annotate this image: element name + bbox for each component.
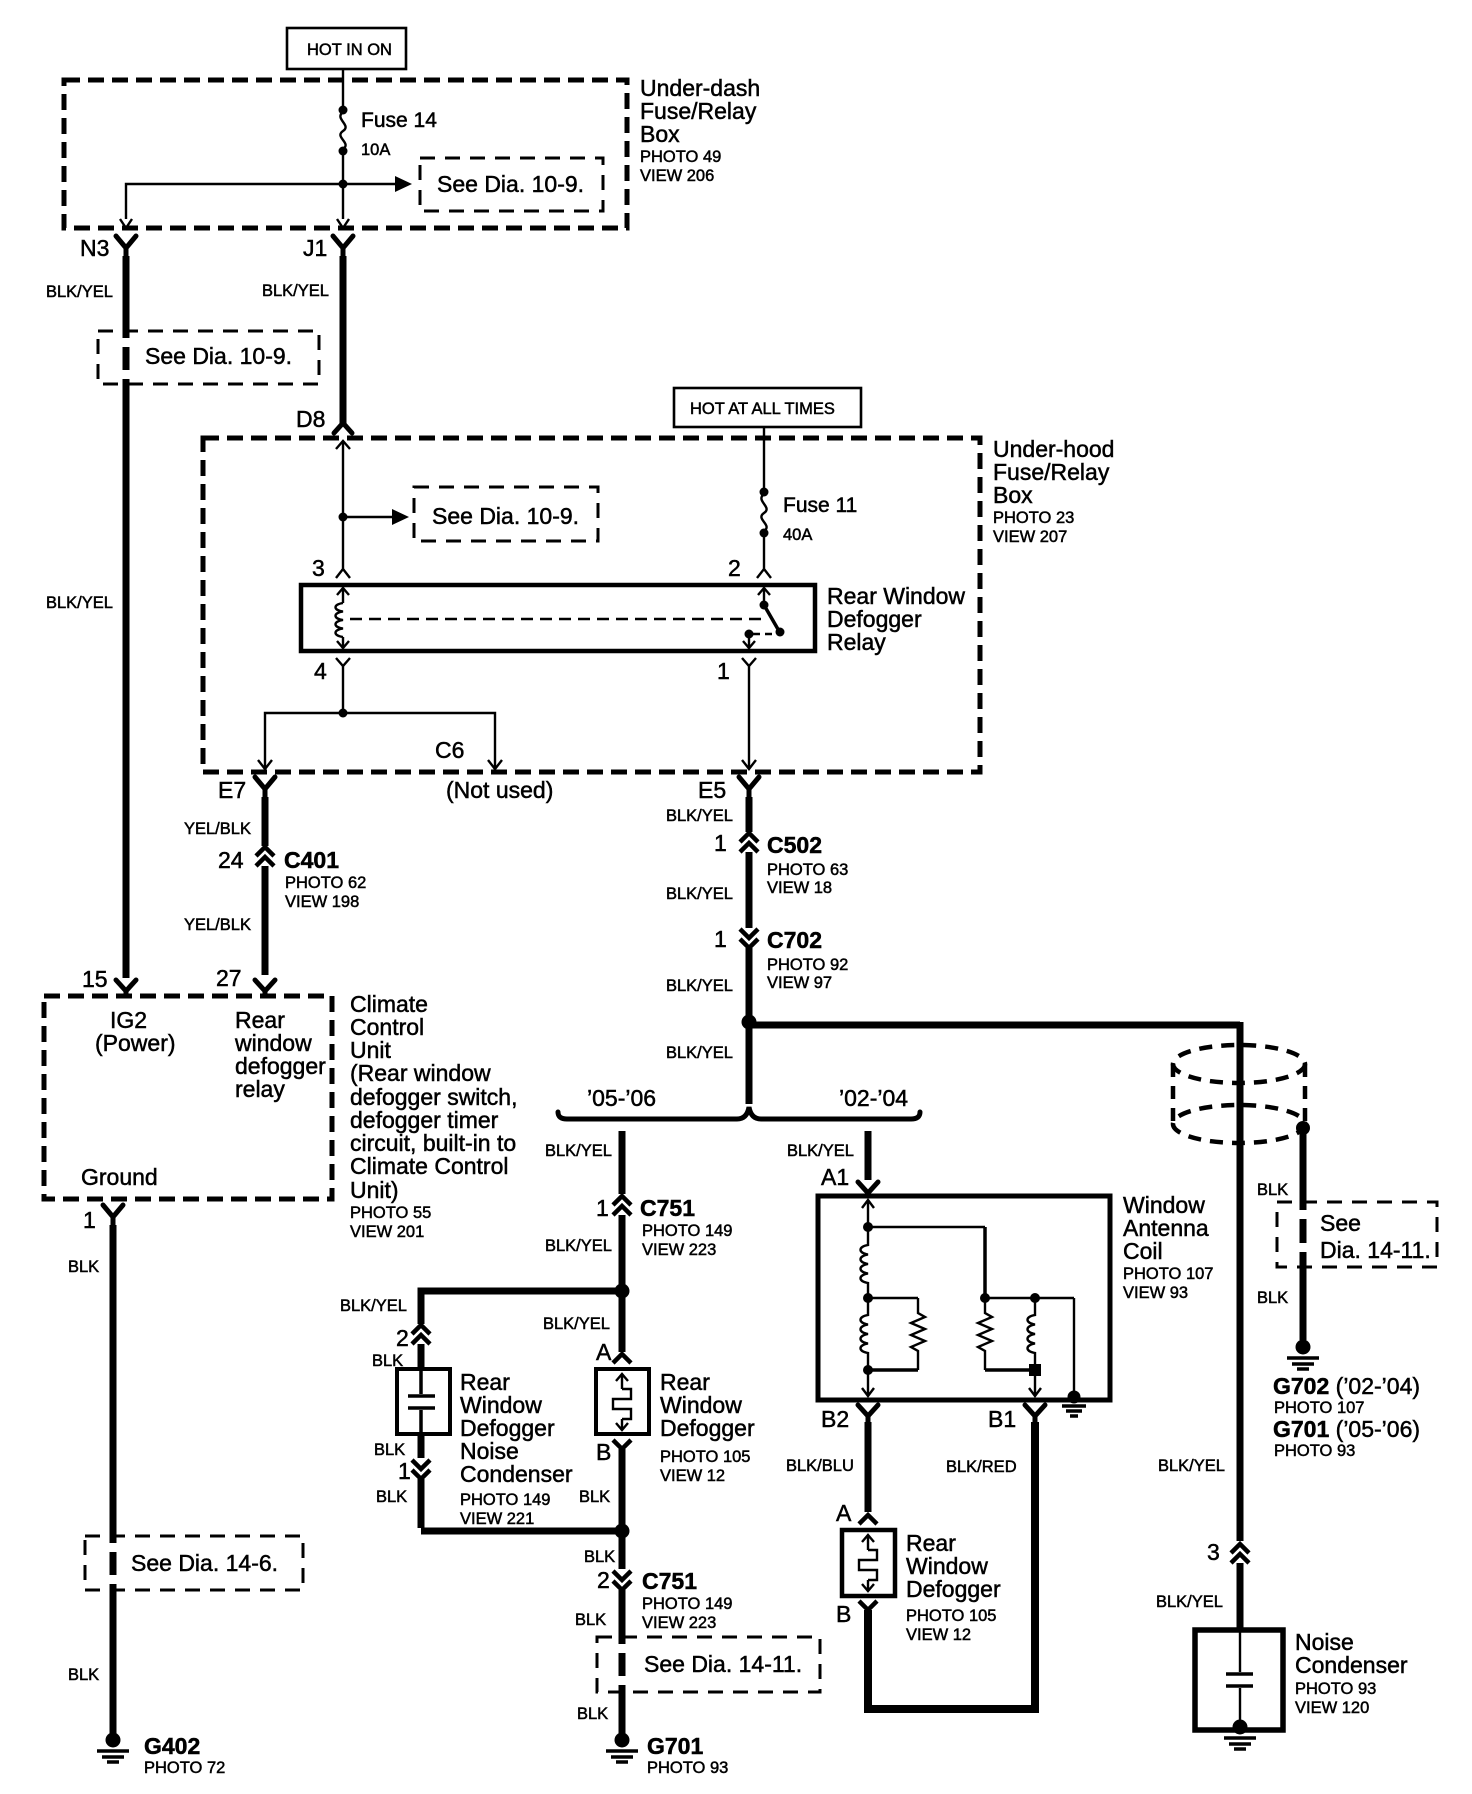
svg-text:See Dia. 10-9.: See Dia. 10-9. xyxy=(145,343,292,369)
svg-text:B2: B2 xyxy=(821,1406,849,1432)
svg-text:2: 2 xyxy=(396,1325,409,1351)
svg-text:BLK/YEL: BLK/YEL xyxy=(787,1142,854,1160)
svg-text:HOT IN ON: HOT IN ON xyxy=(307,41,392,59)
svg-text:BLK: BLK xyxy=(579,1488,610,1506)
relay switch fixed contact dot xyxy=(745,630,754,639)
svg-text:A: A xyxy=(596,1339,612,1365)
svg-text:See: See xyxy=(1320,1210,1361,1236)
svg-text:40A: 40A xyxy=(783,526,812,544)
svg-text:J1: J1 xyxy=(303,235,327,261)
relay switch dashed link xyxy=(753,633,776,635)
svg-text:VIEW 12: VIEW 12 xyxy=(660,1467,725,1485)
svg-text:2: 2 xyxy=(728,555,741,581)
connector fork J1 xyxy=(333,236,353,258)
see dia 10-9 box (left, on N3 wire) xyxy=(98,331,319,384)
svg-text:relay: relay xyxy=(235,1076,285,1102)
svg-text:B: B xyxy=(596,1439,611,1465)
SECTION-C : C401 chain, climate control unit, G402 ground xyxy=(44,777,517,1777)
wire junction to right riser xyxy=(749,1022,1240,1029)
svg-text:HOT AT ALL TIMES: HOT AT ALL TIMES xyxy=(690,400,835,418)
svg-text:1: 1 xyxy=(398,1458,411,1484)
svg-text:PHOTO 149: PHOTO 149 xyxy=(460,1491,550,1509)
svg-text:VIEW 120: VIEW 120 xyxy=(1295,1699,1369,1717)
wire split to C6 xyxy=(343,713,495,757)
wire E5 BLK/YEL xyxy=(746,797,753,832)
svg-text:VIEW 221: VIEW 221 xyxy=(460,1510,534,1528)
svg-text:E7: E7 xyxy=(218,777,246,803)
wire bottom link left pair xyxy=(868,1368,918,1372)
node HOT IN ON xyxy=(287,28,406,69)
coil L1 upper xyxy=(861,1227,869,1298)
svg-text:BLK/YEL: BLK/YEL xyxy=(340,1297,407,1315)
internal ground symbol xyxy=(1062,1406,1086,1416)
svg-text:BLK/YEL: BLK/YEL xyxy=(262,282,329,300)
resistor R2 xyxy=(978,1298,992,1370)
see dia 14-11 box (right) xyxy=(1277,1202,1437,1267)
svg-text:D8: D8 xyxy=(296,406,325,432)
condenser label xyxy=(460,1369,573,1528)
connector pin 3 chevrons xyxy=(1231,1544,1249,1563)
connector C702 xyxy=(740,927,848,992)
relay coil arrow down xyxy=(337,637,349,648)
wire C751 to see dia BLK xyxy=(619,1590,626,1639)
svg-text:Unit): Unit) xyxy=(350,1177,399,1203)
relay switch arrow up xyxy=(758,588,770,603)
wire ground BLK xyxy=(110,1225,117,1538)
wire fuse 14 to junction xyxy=(342,151,344,184)
wire 02-04 drop BLK/YEL xyxy=(865,1131,872,1180)
connector pin A chevron xyxy=(859,1515,877,1524)
connector pin 2 chevrons xyxy=(412,1325,430,1344)
SECTION-E : 05-06 branch with noise condenser and defogger xyxy=(340,1131,820,1777)
connector fork E7 xyxy=(255,777,275,799)
coil L3 right xyxy=(1028,1298,1036,1370)
internal ground dot xyxy=(1068,1391,1081,1404)
wire dashed through see dia 14-11 xyxy=(619,1639,626,1691)
SECTION-G : right column antenna feed, G702, noise condenser xyxy=(1156,1022,1437,1749)
wire defogger B return loop xyxy=(868,1610,1035,1709)
pin 3 fork xyxy=(336,565,350,578)
wire mid link to resistor R1 xyxy=(868,1297,918,1299)
relay switch common contact xyxy=(760,601,769,610)
arrow N3 into box edge xyxy=(120,219,132,228)
connector C502 xyxy=(740,832,848,897)
pin 1 fork xyxy=(742,658,756,671)
arrow C6 at box edge xyxy=(488,757,502,769)
svg-text:VIEW 12: VIEW 12 xyxy=(906,1626,971,1644)
under-hood fuse/relay box label xyxy=(993,436,1114,546)
fuse F14 xyxy=(339,106,438,160)
wire J1 BLK/YEL down to D8 xyxy=(340,256,347,424)
svg-text:BLK/YEL: BLK/YEL xyxy=(46,283,113,301)
wire BLK to G701 xyxy=(619,1691,626,1734)
arrow into see dia 10-9 xyxy=(395,176,412,192)
svg-text:BLK/YEL: BLK/YEL xyxy=(543,1315,610,1333)
SECTION-F : 02-04 branch window antenna coil and defogger xyxy=(786,1131,1213,1713)
wire pin 1 to E5 xyxy=(748,671,750,757)
SECTION-B : under-hood fuse/relay box with defogger relay xyxy=(203,388,1114,803)
connector pin B chevron xyxy=(859,1601,877,1610)
connector C751 lower xyxy=(613,1568,732,1632)
svg-text:VIEW 223: VIEW 223 xyxy=(642,1614,716,1632)
svg-text:1: 1 xyxy=(83,1207,96,1233)
wire to B1 exit arrow xyxy=(1029,1370,1041,1396)
svg-text:VIEW 198: VIEW 198 xyxy=(285,893,359,911)
svg-text:See Dia. 14-11.: See Dia. 14-11. xyxy=(644,1651,802,1677)
junction dot bottom left xyxy=(863,1365,873,1375)
see dia 14-11 box (bottom) xyxy=(597,1637,820,1692)
window antenna coil label xyxy=(1123,1192,1213,1302)
svg-text:3: 3 xyxy=(1207,1539,1220,1565)
wire B1 BLK/RED xyxy=(1031,1422,1039,1713)
connector fork A1 xyxy=(858,1182,878,1196)
see dia 10-9 box (mid) xyxy=(414,487,598,541)
svg-text:PHOTO 23: PHOTO 23 xyxy=(993,509,1074,527)
svg-text:PHOTO 63: PHOTO 63 xyxy=(767,861,848,879)
wire junction to condenser branch xyxy=(421,1291,625,1324)
wire HOT AT ALL TIMES to fuse 11 xyxy=(763,427,765,490)
wire B2 BLK/BLU xyxy=(865,1422,872,1512)
wire condenser to ground bus BLK xyxy=(421,1479,622,1531)
svg-text:C751: C751 xyxy=(642,1568,697,1594)
svg-text:Defogger: Defogger xyxy=(906,1576,1001,1602)
svg-text:PHOTO 149: PHOTO 149 xyxy=(642,1595,732,1613)
wire HOT IN ON to fuse 14 xyxy=(342,69,344,108)
svg-text:PHOTO 55: PHOTO 55 xyxy=(350,1204,431,1222)
pin 15 fork xyxy=(116,980,136,996)
wire bus to C751 pin 2 BLK xyxy=(619,1531,626,1569)
junction dot inside under-hood box xyxy=(339,513,348,522)
wire junction to N3 branch xyxy=(126,184,343,219)
under-hood fuse/relay box border xyxy=(203,438,980,772)
junction dot to antenna feed xyxy=(742,1015,757,1030)
svg-text:PHOTO 107: PHOTO 107 xyxy=(1274,1399,1364,1417)
svg-text:BLK/YEL: BLK/YEL xyxy=(666,1044,733,1062)
relay coil xyxy=(336,603,344,637)
wire condenser pin 1 BLK xyxy=(418,1434,425,1458)
svg-text:See Dia. 10-9.: See Dia. 10-9. xyxy=(432,503,579,529)
wire 05-06 drop BLK/YEL xyxy=(619,1131,626,1194)
connector fork D8 xyxy=(334,415,352,433)
svg-text:B: B xyxy=(836,1601,851,1627)
svg-text:Dia. 14-11.: Dia. 14-11. xyxy=(1320,1237,1431,1263)
svg-text:PHOTO 107: PHOTO 107 xyxy=(1123,1265,1213,1283)
defogger label xyxy=(660,1369,755,1485)
svg-text:2: 2 xyxy=(597,1567,610,1593)
year split bracket xyxy=(558,1107,920,1119)
svg-text:PHOTO 149: PHOTO 149 xyxy=(642,1222,732,1240)
svg-text:PHOTO 93: PHOTO 93 xyxy=(647,1759,728,1777)
svg-text:See Dia. 14-6.: See Dia. 14-6. xyxy=(131,1550,278,1576)
svg-text:BLK/BLU: BLK/BLU xyxy=(786,1457,854,1475)
junction dot mid left xyxy=(863,1293,873,1303)
under-dash fuse/relay box border xyxy=(64,80,627,228)
arrow D8 entering box (inside) xyxy=(336,441,350,449)
arrow into see dia 10-9 (mid) xyxy=(392,509,409,525)
svg-text:C702: C702 xyxy=(767,927,822,953)
svg-text:PHOTO 92: PHOTO 92 xyxy=(767,956,848,974)
svg-text:1: 1 xyxy=(714,830,727,856)
relay switch to pin 1 arrow xyxy=(743,634,755,648)
svg-text:BLK/YEL: BLK/YEL xyxy=(666,977,733,995)
ground at noise condenser xyxy=(1224,1720,1256,1750)
svg-text:G702 (’02-’04): G702 (’02-’04) xyxy=(1273,1373,1420,1399)
defogger grid rear window defogger (02-04) xyxy=(842,1530,895,1596)
svg-text:N3: N3 xyxy=(80,235,109,261)
svg-text:A: A xyxy=(836,1500,852,1526)
svg-text:C751: C751 xyxy=(640,1195,695,1221)
svg-text:G402: G402 xyxy=(144,1733,200,1759)
svg-text:G701: G701 xyxy=(647,1733,703,1759)
svg-text:(Not used): (Not used) xyxy=(446,777,553,803)
arrow A1 inside box xyxy=(862,1200,874,1227)
wire D8 to junction inside box xyxy=(342,441,344,517)
svg-text:VIEW 18: VIEW 18 xyxy=(767,879,832,897)
junction dot to condenser branch xyxy=(615,1284,630,1299)
climate control unit label xyxy=(350,991,517,1241)
svg-text:Condenser: Condenser xyxy=(460,1461,573,1487)
junction dot right pair right xyxy=(1030,1293,1040,1303)
ground G402 xyxy=(97,1733,225,1778)
junction dot right pair left xyxy=(980,1293,990,1303)
wire junction to see-dia arrow xyxy=(343,516,395,518)
arrow J1 into box edge xyxy=(337,219,349,228)
resistor R1 xyxy=(911,1298,925,1370)
climate control unit box border xyxy=(44,996,332,1199)
wire BLK to G402 xyxy=(110,1589,117,1734)
svg-text:VIEW 93: VIEW 93 xyxy=(1123,1284,1188,1302)
svg-text:3: 3 xyxy=(312,555,325,581)
svg-text:Ground: Ground xyxy=(81,1164,158,1190)
svg-text:BLK: BLK xyxy=(577,1705,608,1723)
svg-text:VIEW 223: VIEW 223 xyxy=(642,1241,716,1259)
relay label xyxy=(827,583,965,655)
condenser C2 noise condenser xyxy=(1195,1630,1283,1730)
wire E7 YEL/BLK xyxy=(262,797,269,846)
svg-text:PHOTO 93: PHOTO 93 xyxy=(1295,1680,1376,1698)
wire top link to right half xyxy=(868,1226,985,1228)
relay coil arrow up xyxy=(337,588,349,603)
connector fork E5 xyxy=(739,777,759,799)
svg-text:YEL/BLK: YEL/BLK xyxy=(184,916,251,934)
wire J1 down xyxy=(342,184,344,219)
ground G702/G701 xyxy=(1273,1340,1420,1461)
svg-text:G701 (’05-’06): G701 (’05-’06) xyxy=(1273,1416,1420,1442)
svg-text:PHOTO 93: PHOTO 93 xyxy=(1274,1442,1355,1460)
window antenna coil box border xyxy=(818,1196,1110,1400)
svg-text:BLK/YEL: BLK/YEL xyxy=(545,1142,612,1160)
connector fork B1 xyxy=(1025,1405,1045,1424)
svg-text:PHOTO 105: PHOTO 105 xyxy=(660,1448,750,1466)
svg-text:BLK: BLK xyxy=(1257,1289,1288,1307)
svg-text:A1: A1 xyxy=(821,1164,849,1190)
arrow E7 at box edge xyxy=(258,757,272,769)
pin 27 fork xyxy=(255,980,275,996)
svg-text:YEL/BLK: YEL/BLK xyxy=(184,820,251,838)
wire junction to see-dia arrow xyxy=(343,183,398,185)
junction square bottom right xyxy=(1029,1364,1041,1376)
see dia 10-9 box (top) xyxy=(420,158,603,211)
node HOT AT ALL TIMES xyxy=(674,388,861,427)
junction dot at split xyxy=(339,709,348,718)
svg-text:BLK: BLK xyxy=(68,1258,99,1276)
relay K1 rear window defogger relay box xyxy=(301,585,815,651)
wire N3 long BLK/YEL down to climate pin 15 xyxy=(123,384,130,978)
wire pin 4 down to split xyxy=(342,671,344,713)
noise condenser label xyxy=(1295,1629,1408,1717)
arrow E5 at box edge xyxy=(742,757,756,769)
connector fork B2 xyxy=(858,1405,878,1424)
svg-text:BLK/YEL: BLK/YEL xyxy=(1156,1593,1223,1611)
coil L2 lower left xyxy=(861,1298,869,1370)
condenser C1 rear window defogger noise condenser xyxy=(397,1369,450,1434)
svg-text:BLK: BLK xyxy=(1257,1181,1288,1199)
svg-text:Box: Box xyxy=(993,482,1033,508)
wire C751 to junction BLK/YEL xyxy=(619,1215,626,1291)
ground G701 xyxy=(606,1733,728,1778)
svg-text:PHOTO 72: PHOTO 72 xyxy=(144,1759,225,1777)
svg-text:VIEW 201: VIEW 201 xyxy=(350,1223,424,1241)
wire junction to relay pin 3 xyxy=(342,517,344,565)
svg-text:BLK: BLK xyxy=(374,1441,405,1459)
svg-text:PHOTO 49: PHOTO 49 xyxy=(640,148,721,166)
svg-text:C502: C502 xyxy=(767,832,822,858)
svg-text:1: 1 xyxy=(596,1195,609,1221)
svg-text:BLK/RED: BLK/RED xyxy=(946,1458,1017,1476)
svg-text:VIEW 207: VIEW 207 xyxy=(993,528,1067,546)
junction dot ground bus xyxy=(615,1524,630,1539)
wire defogger B to ground bus BLK xyxy=(619,1449,626,1531)
svg-text:Defogger: Defogger xyxy=(660,1415,755,1441)
svg-text:’02-’04: ’02-’04 xyxy=(839,1085,908,1111)
svg-text:Condenser: Condenser xyxy=(1295,1652,1408,1678)
wire dashed through see dia right xyxy=(1300,1204,1307,1266)
svg-text:BLK: BLK xyxy=(575,1611,606,1629)
svg-text:B1: B1 xyxy=(988,1406,1016,1432)
pin 1 fork xyxy=(103,1205,123,1227)
svg-text:1: 1 xyxy=(714,926,727,952)
wire defogger A BLK/YEL xyxy=(619,1291,626,1352)
wire C401 to pin 27 YEL/BLK xyxy=(262,866,269,975)
relay switch blade xyxy=(764,605,779,631)
connector pin A chevron xyxy=(613,1354,631,1363)
svg-text:BLK/YEL: BLK/YEL xyxy=(46,594,113,612)
svg-text:’05-’06: ’05-’06 xyxy=(587,1085,656,1111)
wire N3 BLK/YEL xyxy=(123,256,130,333)
wire junction down to year bracket xyxy=(746,1022,753,1104)
wire BLK to G702 ground xyxy=(1300,1266,1307,1340)
junction dot on cylinder xyxy=(1296,1121,1310,1135)
svg-text:Relay: Relay xyxy=(827,629,886,655)
svg-text:Fuse 14: Fuse 14 xyxy=(361,109,437,132)
connector C401 xyxy=(256,847,366,911)
svg-text:BLK/YEL: BLK/YEL xyxy=(1158,1457,1225,1475)
wire bottom link right pair xyxy=(985,1368,1035,1372)
connector fork N3 xyxy=(116,236,136,258)
svg-text:VIEW 97: VIEW 97 xyxy=(767,974,832,992)
under-dash fuse/relay box label xyxy=(640,75,760,185)
wire fuse 11 to relay pin 2 xyxy=(763,533,765,565)
svg-text:C6: C6 xyxy=(435,737,464,763)
wire internal ground drop xyxy=(1073,1298,1075,1397)
antenna coupling cylinder xyxy=(1173,1045,1305,1143)
svg-text:Box: Box xyxy=(640,121,680,147)
svg-text:BLK: BLK xyxy=(584,1548,615,1566)
defogger 02-04 label xyxy=(906,1530,1001,1644)
wire dashed through see dia 14-6 xyxy=(110,1538,117,1589)
wire split to E7 xyxy=(265,713,343,757)
junction dot top inside coil box xyxy=(863,1222,873,1232)
svg-text:E5: E5 xyxy=(698,777,726,803)
svg-text:BLK/YEL: BLK/YEL xyxy=(666,807,733,825)
wire to noise condenser BLK/YEL xyxy=(1237,1563,1244,1630)
svg-text:BLK: BLK xyxy=(376,1488,407,1506)
wire to condenser BLK xyxy=(418,1344,425,1369)
svg-text:BLK/YEL: BLK/YEL xyxy=(666,885,733,903)
pin 4 fork xyxy=(336,658,350,671)
svg-text:BLK/YEL: BLK/YEL xyxy=(545,1237,612,1255)
SECTION-D : E5 chain C502 C702 and year split bracket xyxy=(558,777,1240,1119)
wire right riser down through coil cylinder xyxy=(1237,1022,1244,1541)
wire N3 dashed through see-dia box xyxy=(123,333,130,384)
svg-text:Coil: Coil xyxy=(1123,1238,1163,1264)
see dia 14-6 box xyxy=(85,1536,303,1590)
svg-text:C401: C401 xyxy=(284,847,339,873)
wire mid link right pair xyxy=(985,1297,1074,1299)
wire C502 to C702 BLK/YEL xyxy=(746,852,753,928)
climate control unit pins labels xyxy=(81,1007,326,1190)
svg-text:1: 1 xyxy=(717,658,730,684)
svg-text:Climate Control: Climate Control xyxy=(350,1153,509,1179)
svg-text:10A: 10A xyxy=(361,141,390,159)
svg-text:PHOTO 105: PHOTO 105 xyxy=(906,1607,996,1625)
svg-text:24: 24 xyxy=(218,847,244,873)
svg-text:PHOTO 62: PHOTO 62 xyxy=(285,874,366,892)
svg-text:27: 27 xyxy=(216,965,242,991)
svg-text:VIEW 206: VIEW 206 xyxy=(640,167,714,185)
fuse F11 xyxy=(760,488,858,545)
defogger grid rear window defogger (05-06) xyxy=(596,1369,649,1434)
pin 2 fork xyxy=(757,565,771,578)
wire C702 down BLK/YEL xyxy=(746,948,753,1022)
wire BLK from cylinder xyxy=(1300,1128,1307,1204)
relay internal dashed link xyxy=(350,618,768,620)
svg-text:15: 15 xyxy=(82,966,108,992)
connector C751 xyxy=(613,1195,732,1259)
SECTION-A : under-dash fuse/relay box xyxy=(46,28,760,978)
relay switch blade end dot xyxy=(776,628,785,637)
connector pin 1 chevrons xyxy=(412,1460,430,1479)
svg-text:(Rear window: (Rear window xyxy=(350,1060,491,1086)
svg-text:BLK: BLK xyxy=(68,1666,99,1684)
svg-text:See Dia. 10-9.: See Dia. 10-9. xyxy=(437,171,584,197)
svg-text:Fuse 11: Fuse 11 xyxy=(783,494,857,517)
wire to B2 exit arrow xyxy=(862,1370,874,1396)
svg-text:(Power): (Power) xyxy=(95,1030,176,1056)
svg-text:4: 4 xyxy=(314,658,327,684)
wire right half riser xyxy=(983,1227,987,1298)
junction on J1 wire xyxy=(339,180,348,189)
connector pin B chevron xyxy=(613,1440,631,1449)
